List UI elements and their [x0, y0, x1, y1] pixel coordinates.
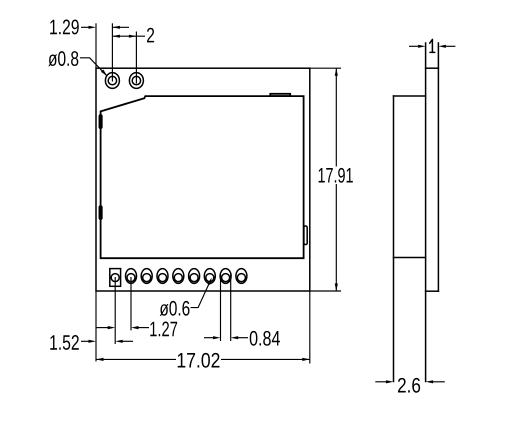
extension line 17.91 bottom — [310, 290, 341, 292]
label 1.27 — [150, 322, 177, 337]
arrow side 1 right — [438, 45, 446, 48]
pin 5 — [173, 269, 184, 284]
dim 2.6 side line — [375, 381, 386, 383]
arrow 17.91 up — [335, 68, 338, 76]
extension line pin8 left tangent — [220, 274, 222, 341]
arrow dim2 left — [112, 35, 120, 38]
arrow side 2.6 right — [426, 380, 434, 383]
left tab upper — [99, 115, 102, 128]
extension line left edge (extends module left edge up and down) — [95, 23, 97, 68]
arrow 1.29 left at hole1 — [112, 26, 120, 29]
label 2.6 side — [398, 378, 420, 393]
label 2 — [147, 28, 154, 43]
side glass right edge — [437, 43, 439, 291]
dim 2 line — [112, 35, 145, 37]
side divider edge — [394, 257, 426, 259]
arrow 1.29 right — [89, 26, 97, 29]
pin 4 — [157, 269, 168, 284]
side pcb top edge — [394, 95, 426, 97]
arrow 17.02 left — [96, 358, 104, 361]
left tab lower — [99, 206, 102, 219]
label dia 0.6 — [160, 301, 190, 316]
dim 17.02 line — [96, 358, 176, 360]
module outline front view — [96, 68, 310, 291]
side glass top edge — [426, 67, 439, 69]
arrow leader 0.8 — [101, 70, 107, 77]
leader diameter 0.6 — [191, 283, 210, 308]
dim 1.27 line — [96, 327, 108, 329]
label 17.91 — [319, 168, 353, 183]
extension line pin1 center — [114, 277, 116, 344]
arrow 1.52 left at pin1 — [115, 340, 123, 343]
extension line pin2 center — [130, 277, 132, 330]
arrow side 2.6 left — [386, 380, 394, 383]
dim 1 side line — [409, 45, 418, 47]
arrow 1.27 right at pin1 — [108, 326, 116, 329]
text 17.91 background mask — [316, 167, 355, 185]
arrow 1.52 right — [89, 340, 97, 343]
dim 0.84 line — [204, 337, 214, 339]
side view — [394, 43, 439, 382]
dim 17.91 line — [335, 68, 337, 166]
arrow 17.02 right — [302, 358, 310, 361]
arrow leader 0.6 — [207, 278, 212, 285]
label 17.02 — [178, 353, 220, 368]
pin 1 square pad — [110, 269, 121, 287]
label 1 side — [430, 39, 435, 52]
hole H2 — [129, 73, 143, 89]
arrow dim2 right — [129, 35, 137, 38]
hole H1 — [105, 73, 119, 89]
dim 1.29 line — [81, 26, 89, 28]
extension line hole1 center — [111, 23, 113, 81]
screen outline — [101, 96, 304, 258]
side pcb left edge — [393, 96, 395, 382]
top tab — [270, 94, 290, 96]
leader diameter 0.8 — [80, 58, 107, 76]
pin 6 — [189, 269, 200, 284]
dim 1.52 line — [81, 340, 89, 342]
right tab — [304, 226, 307, 245]
arrow side 1 left — [418, 45, 426, 48]
extension line hole2 center — [135, 32, 137, 84]
pin 7 — [204, 269, 215, 284]
arrow 0.84 left — [231, 336, 239, 339]
pin 8 — [220, 269, 231, 284]
pin 9 — [236, 269, 247, 284]
arrow 17.91 down — [335, 284, 338, 292]
label 0.84 — [250, 331, 280, 346]
arrow 0.84 right — [213, 336, 221, 339]
extension line pin8 right tangent — [230, 274, 232, 341]
arrow 1.27 left at pin2 — [131, 326, 139, 329]
side glass bottom edge — [426, 290, 439, 292]
extension line 17.91 top — [310, 67, 341, 69]
side glass left edge — [425, 43, 427, 382]
pin 3 — [141, 269, 152, 284]
label 1.29 — [50, 20, 79, 35]
label 1.52 — [50, 335, 79, 350]
pin 2 — [126, 269, 137, 284]
extension line right edge below module — [309, 291, 311, 364]
label dia 0.8 — [48, 51, 78, 66]
